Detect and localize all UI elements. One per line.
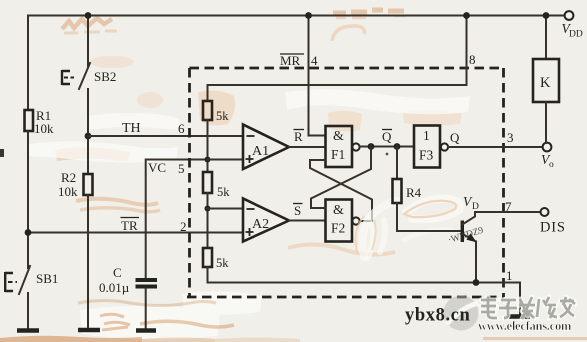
wire divider segment 2 <box>207 120 209 172</box>
svg-text:SB1: SB1 <box>36 271 58 286</box>
resistor R2 <box>84 174 93 195</box>
wire left vertical (R1 to TR node to SB1) <box>27 131 29 268</box>
svg-text:A1: A1 <box>252 144 269 159</box>
tan stain near 5k1 <box>198 91 235 126</box>
ground pin 1 <box>509 314 530 319</box>
white correction smear left mid <box>28 141 178 162</box>
tan scan stain top middle-right (mirrored text bleed) <box>333 10 404 13</box>
svg-text:0.01µ: 0.01µ <box>99 280 130 295</box>
svg-text:A2: A2 <box>252 217 269 232</box>
wire left vertical upper (VDD to R1) <box>27 16 29 111</box>
stray mark near Q <box>386 153 389 156</box>
wire emitter to pin1 rail <box>475 242 477 283</box>
svg-text:SB2: SB2 <box>94 69 116 84</box>
wire pin 4 MR <box>309 16 326 136</box>
svg-text:1: 1 <box>506 268 513 283</box>
dashed IC box right edge <box>502 68 505 297</box>
resistor 5k (bottom) <box>203 248 212 267</box>
white correction smear above A1 F1 <box>285 89 470 114</box>
orange strip bottom edge <box>0 336 142 342</box>
tan stain above F1 <box>328 111 362 132</box>
ground under SB1 <box>17 328 39 333</box>
tan stain above F3 <box>403 110 462 126</box>
NAND gate F1 <box>326 126 353 167</box>
svg-text:C: C <box>113 265 122 280</box>
wire SB2 to TH node <box>87 89 89 174</box>
watermark chinese chars (approx strokes) <box>481 297 575 319</box>
svg-text:8: 8 <box>469 52 476 67</box>
relay K <box>533 59 559 102</box>
white band above TH <box>86 113 180 130</box>
white correction smear bottom middle <box>182 291 262 314</box>
svg-text:5k: 5k <box>216 109 229 123</box>
wire K to Vo node <box>545 102 547 143</box>
svg-text:VC: VC <box>148 160 166 175</box>
orange line bottom right edge <box>483 337 587 340</box>
svg-text:4: 4 <box>311 53 318 68</box>
resistor 5k (top) <box>203 101 212 120</box>
wire SB1 to ground <box>27 293 29 329</box>
wire divider bottom to pin1 rail <box>208 267 521 315</box>
wire F3 output to Vo terminal (pin 3) <box>448 146 542 148</box>
ground under R2 <box>78 328 100 333</box>
svg-text:K: K <box>540 75 551 91</box>
svg-text:TR: TR <box>121 218 138 233</box>
junction F1 out a <box>368 143 375 150</box>
svg-text:S: S <box>294 203 301 218</box>
orange scribble bottom left 1 <box>78 301 216 306</box>
wire tap to A2 minus <box>208 208 244 210</box>
wire capacitor to ground <box>145 289 147 330</box>
svg-text:DIS: DIS <box>540 220 566 236</box>
junction VC tap <box>205 157 211 163</box>
svg-text:7: 7 <box>505 199 512 214</box>
svg-text:MR: MR <box>280 53 301 68</box>
svg-text:Q: Q <box>450 130 460 145</box>
junction TR node <box>25 229 32 236</box>
white smear bottom left <box>80 305 220 339</box>
tan stain near SB2 <box>90 56 134 68</box>
dashed IC box top edge <box>190 67 504 70</box>
left edge scan artifact <box>0 149 4 157</box>
svg-text:5: 5 <box>178 161 185 176</box>
tan stain near cap top <box>137 92 163 108</box>
junction A2 minus tap <box>205 206 211 212</box>
svg-text:F3: F3 <box>419 148 434 163</box>
svg-text:10k: 10k <box>58 184 78 199</box>
watermark gray circle logo <box>444 296 479 331</box>
wire SB2 branch from rail <box>87 16 89 67</box>
wire R2 to ground <box>87 195 89 328</box>
wire divider top segment <box>207 85 209 101</box>
NAND gate F2 <box>326 200 353 242</box>
orange scribble bottom left 2 <box>140 321 234 327</box>
svg-text:1: 1 <box>423 128 430 143</box>
svg-text:2: 2 <box>180 219 187 234</box>
tan stain near TR left <box>76 199 158 205</box>
terminal Vo <box>543 143 552 152</box>
wire top VDD rail <box>28 15 569 17</box>
svg-text:www.elecfans.com: www.elecfans.com <box>478 319 572 333</box>
pushbutton SB1 <box>19 266 30 294</box>
svg-text:3: 3 <box>507 130 514 145</box>
svg-text:R: R <box>294 129 303 144</box>
svg-text:&: & <box>333 203 344 218</box>
wire F1 output to F3 <box>360 146 414 148</box>
svg-text:Q: Q <box>382 129 392 144</box>
terminal DIS <box>541 208 549 216</box>
junction emitter pin1 <box>473 279 480 286</box>
wire cross coupling F2 out to F1 input <box>310 160 372 221</box>
svg-text:&: & <box>333 129 344 144</box>
wire pin 8 from rail <box>208 16 467 86</box>
svg-text:o: o <box>549 160 554 170</box>
dashed IC box left edge <box>188 68 191 297</box>
wire R4 to transistor base <box>397 203 462 231</box>
tan stain F2 bottom <box>288 244 395 254</box>
op-amp comparator A1 <box>243 125 289 170</box>
wire cross coupling F1 out to F2 input <box>311 147 371 209</box>
resistor 5k (middle) <box>203 172 212 193</box>
junction F1 out b <box>394 143 401 150</box>
wire A1 output to F1 <box>289 146 326 148</box>
svg-text:D: D <box>472 202 479 212</box>
junction rail dots <box>85 12 92 19</box>
resistor R1 <box>25 110 34 131</box>
svg-text:10k: 10k <box>34 121 54 136</box>
inverter F3 <box>414 126 440 168</box>
transistor VD discharge <box>461 221 464 243</box>
orange scribble bottom left 1b <box>100 314 130 330</box>
tan scan stain top left (mirrored text bleed) <box>62 18 112 29</box>
wire TH (pin 6) <box>88 135 243 137</box>
svg-text:ybx8.cn: ybx8.cn <box>405 306 470 326</box>
wire VC (pin 5) to capacitor <box>146 160 208 279</box>
tan curve stain below <box>332 26 364 41</box>
resistor R4 <box>393 179 402 203</box>
capacitor C 0.01u <box>136 280 158 287</box>
dashed IC box bottom edge <box>187 296 504 299</box>
tan stain left mid <box>55 147 130 162</box>
ground under C <box>136 328 156 333</box>
svg-text:5k: 5k <box>217 185 230 199</box>
svg-text:R2: R2 <box>61 170 76 185</box>
wire R4 branch <box>396 147 398 180</box>
wire VC tap to A1 plus <box>208 159 244 161</box>
svg-text:DD: DD <box>569 30 583 40</box>
wire K branch from rail <box>545 16 547 60</box>
terminal VDD <box>565 11 574 20</box>
wire DIS (pin 7) <box>475 211 541 213</box>
svg-text:5k: 5k <box>216 256 229 270</box>
svg-text:F1: F1 <box>331 147 345 162</box>
wire A2 output to F2 <box>289 220 326 222</box>
pushbutton SB2 <box>79 63 90 89</box>
svg-text:TH: TH <box>122 121 141 136</box>
svg-text:F2: F2 <box>331 221 345 236</box>
wire divider segment 3 <box>207 193 209 248</box>
white scribble over cross coupling area <box>356 199 461 258</box>
svg-text:R4: R4 <box>406 185 422 200</box>
svg-text:6: 6 <box>178 121 185 136</box>
op-amp comparator A2 <box>243 199 289 242</box>
wire TR (pin 2) <box>28 232 243 234</box>
junction TH node <box>85 133 92 140</box>
